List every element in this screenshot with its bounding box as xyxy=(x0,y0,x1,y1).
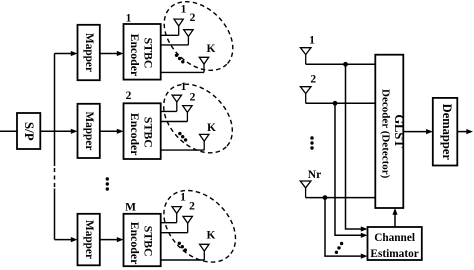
svg-text:Mapper: Mapper xyxy=(83,33,95,72)
wire junction Rx1 down to channel estimator xyxy=(346,64,362,229)
antenna Rx Nr xyxy=(300,181,311,198)
wire STBC3 to antenna 1 xyxy=(161,222,177,224)
wire STBC1 to antenna 1 xyxy=(161,34,179,36)
wire Channel Estimator to GLST with arrow xyxy=(394,214,396,227)
svg-text:1: 1 xyxy=(126,12,132,24)
antenna Rx 2 xyxy=(300,87,311,104)
block Mapper 2 xyxy=(78,104,100,158)
block STBC Encoder 1 xyxy=(124,24,161,80)
svg-text:STBC: STBC xyxy=(141,117,155,148)
wire branch vertical (solid bottom) xyxy=(54,189,56,240)
svg-text:1: 1 xyxy=(181,81,187,93)
dots diagonal row2 xyxy=(178,132,187,142)
wire STBC1 to antenna 2 xyxy=(161,44,189,46)
svg-text:1: 1 xyxy=(181,4,187,16)
wire STBC2 to antenna K xyxy=(161,149,205,151)
svg-text:Decoder (Detector): Decoder (Detector) xyxy=(379,89,391,179)
wire STBC3 to antenna K xyxy=(161,259,205,261)
wire S/P to Mapper2 with arrow xyxy=(40,130,71,132)
dots diagonal channel estimator inputs xyxy=(335,242,344,254)
antenna Tx M-2 xyxy=(183,216,192,232)
antenna Tx 2-2 xyxy=(183,106,192,122)
wire input to S/P xyxy=(0,130,17,132)
svg-text:Mapper: Mapper xyxy=(83,111,95,150)
svg-text:K: K xyxy=(207,122,216,134)
svg-text:1: 1 xyxy=(180,192,186,204)
wire Mapper3 to STBC3 with arrow xyxy=(100,239,118,241)
wire branch vertical (solid top) xyxy=(54,54,56,167)
dashed ellipse group 3 xyxy=(150,176,250,270)
antenna Tx 2-K xyxy=(200,134,209,150)
node junction Rx2 xyxy=(333,101,338,106)
wire antenna RxNr to GLST xyxy=(306,197,376,199)
svg-text:2: 2 xyxy=(190,91,196,103)
block STBC Encoder 3 xyxy=(124,214,161,266)
wire antenna Rx1 to GLST xyxy=(306,63,376,65)
wire GLST to Demapper with arrow xyxy=(403,131,427,133)
svg-text:STBC: STBC xyxy=(141,226,155,257)
wire Mapper1 to STBC1 with arrow xyxy=(100,53,118,55)
block Demapper xyxy=(433,98,458,166)
svg-text:M: M xyxy=(125,202,136,214)
node junction RxNr xyxy=(323,195,328,200)
svg-text:1: 1 xyxy=(309,34,315,46)
wire Demapper output arrow xyxy=(457,131,467,133)
svg-text:Encoder: Encoder xyxy=(128,113,142,156)
svg-text:Encoder: Encoder xyxy=(128,222,142,265)
wire STBC3 to antenna 2 xyxy=(161,232,188,234)
dots diagonal row3 xyxy=(178,242,187,252)
wire STBC2 to antenna 2 xyxy=(161,121,188,123)
wire branch to Mapper1 with arrow xyxy=(55,53,72,55)
svg-text:2: 2 xyxy=(310,73,316,85)
block Mapper 1 xyxy=(78,25,100,80)
block STBC Encoder 2 xyxy=(124,103,161,159)
dots vertical rx xyxy=(310,136,313,149)
antenna Tx 1-K xyxy=(199,57,208,72)
node junction Rx1 xyxy=(343,62,348,67)
svg-text:Encoder: Encoder xyxy=(128,34,142,77)
wire Mapper2 to STBC2 with arrow xyxy=(100,130,118,132)
wire branch to Mapper3 with arrow xyxy=(55,239,72,241)
wire antenna Rx2 to GLST xyxy=(306,102,376,104)
svg-text:Estimator: Estimator xyxy=(370,248,418,260)
svg-text:S/P: S/P xyxy=(22,122,37,141)
block S/P xyxy=(17,113,40,149)
antenna Rx 1 xyxy=(300,48,311,65)
antenna Tx M-1 xyxy=(172,207,181,223)
block Channel Estimator xyxy=(368,227,422,260)
antenna Tx M-K xyxy=(200,244,209,260)
svg-text:2: 2 xyxy=(126,90,132,102)
wire STBC2 to antenna 1 xyxy=(161,110,177,112)
dots vertical between mappers xyxy=(106,177,109,190)
svg-text:Demapper: Demapper xyxy=(440,104,454,161)
antenna Tx 1-1 xyxy=(174,19,183,35)
svg-text:Nr: Nr xyxy=(308,169,321,181)
dots diagonal row1 xyxy=(175,54,185,64)
svg-text:Channel: Channel xyxy=(374,232,415,244)
svg-text:K: K xyxy=(207,229,216,241)
dashed ellipse group 2 xyxy=(150,71,245,166)
block Mapper 3 xyxy=(78,214,100,265)
antenna Tx 2-1 xyxy=(172,95,181,111)
wire junction RxNr down to channel estimator xyxy=(325,198,362,257)
wire junction Rx2 down to channel estimator xyxy=(335,103,362,235)
block GLST Decoder (Detector) xyxy=(375,55,403,208)
svg-text:K: K xyxy=(207,43,216,55)
dashed ellipse group 1 xyxy=(151,0,246,84)
svg-text:2: 2 xyxy=(190,12,196,24)
svg-text:2: 2 xyxy=(189,200,195,212)
wire branch vertical (dashed middle) xyxy=(54,168,56,188)
wire STBC1 to antenna K xyxy=(161,71,204,73)
antenna Tx 1-2 xyxy=(184,30,193,45)
svg-text:STBC: STBC xyxy=(141,38,155,69)
svg-text:Mapper: Mapper xyxy=(83,220,95,259)
